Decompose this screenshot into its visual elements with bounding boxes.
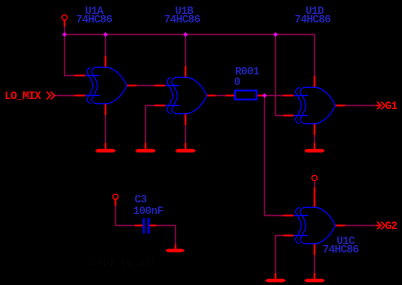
- svg-text:0: 0: [234, 77, 240, 89]
- U1C pin input2: [283, 235, 294, 237]
- junction on bus at U1A top: [103, 32, 107, 36]
- ground bar C3: [165, 249, 185, 253]
- wire U1B bottom to ground: [185, 125, 187, 143]
- ground stem red U1C in2: [275, 273, 277, 279]
- wire U1D bottom to ground: [314, 135, 316, 143]
- xor gate U1C: [294, 207, 336, 243]
- wire node down to U1C in1: [265, 96, 284, 216]
- ground bar under U1D: [304, 149, 325, 153]
- ground stem red under U1B: [185, 143, 187, 149]
- svg-text:C3: C3: [135, 195, 148, 207]
- wire C3 right to ground: [157, 226, 176, 245]
- ground bar under U1A: [95, 149, 116, 153]
- svg-text:74HC86: 74HC86: [164, 15, 200, 27]
- junction on bus at left drop: [62, 32, 66, 36]
- U1A pin input2: [75, 95, 86, 97]
- ground stem red under U1D: [314, 143, 316, 149]
- U1D pin input2: [283, 115, 294, 117]
- wire bus drop to U1D in2: [276, 35, 284, 116]
- wire U1C bottom to ground: [314, 255, 316, 273]
- svg-text:G1: G1: [385, 101, 398, 113]
- capacitor C3 plates: [144, 218, 149, 234]
- U1B pin bottom: [185, 113, 187, 125]
- resistor R001 pin left: [226, 95, 236, 97]
- wire C3 circle to cap: [116, 206, 136, 226]
- wire drop to U1B top pin: [185, 35, 187, 67]
- U1D pin input1: [283, 95, 294, 97]
- xor gate U1A: [85, 67, 127, 103]
- U1B pin top: [185, 66, 187, 78]
- junction at R001 output node: [262, 93, 266, 97]
- wire bus top horizontal with right drop: [65, 35, 315, 77]
- C3 port stem: [115, 200, 117, 206]
- U1A pin bottom: [105, 103, 107, 115]
- junction on bus at U1D drop: [273, 32, 277, 36]
- resistor R001 body: [235, 91, 257, 100]
- wire circle to bus: [64, 27, 66, 35]
- xor gate U1B: [165, 77, 207, 113]
- U1C pin top: [314, 196, 316, 208]
- resistor R001 pin right: [257, 95, 266, 97]
- U1A pin output: [127, 85, 137, 87]
- U1C pin bottom: [314, 244, 316, 255]
- svg-text:LO_MIX: LO_MIX: [5, 91, 42, 103]
- wire drop to U1A top pin: [105, 35, 107, 57]
- port chevron G2: [376, 222, 385, 230]
- U1C pin output: [335, 225, 345, 227]
- wire U1B in2 to ground: [146, 106, 155, 144]
- power port stem above U1C: [314, 188, 316, 197]
- U1B pin output: [207, 95, 216, 97]
- ground stem red under U1C: [314, 273, 316, 279]
- wire U1A out to U1B in1: [137, 85, 155, 87]
- U1A pin input1: [75, 75, 86, 77]
- xor gate U1D: [294, 87, 336, 123]
- power port circle top-left: [62, 15, 67, 20]
- ground bar under U1C: [304, 279, 325, 283]
- C3 top power port circle: [113, 194, 118, 199]
- U1B pin input2: [155, 105, 166, 107]
- power port circle above U1C: [312, 175, 317, 180]
- wire LO_MIX to U1A input2: [55, 95, 75, 97]
- ground stem red U1B in2: [145, 143, 147, 149]
- wire U1D out to port G1: [345, 105, 378, 107]
- wire U1B out to R001: [216, 95, 226, 97]
- wire U1C out to port G2: [345, 225, 378, 227]
- ground stem red under U1A: [105, 143, 107, 149]
- ground bar U1C in2: [265, 279, 286, 283]
- capacitor C3 pin left: [135, 225, 143, 227]
- ground stem red C3: [175, 245, 177, 250]
- power port stem red: [64, 20, 66, 26]
- wire U1A bottom to ground: [105, 115, 107, 143]
- port chevron LO_MIX: [47, 92, 55, 100]
- svg-text:74HC86: 74HC86: [76, 15, 112, 27]
- wire U1C top circle segment: [314, 182, 316, 188]
- U1B pin input1: [155, 85, 166, 87]
- svg-text:74HC86: 74HC86: [322, 245, 358, 257]
- svg-text:100nF: 100nF: [133, 206, 163, 218]
- U1A pin top: [105, 56, 107, 68]
- wire R001 to U1D in1: [265, 95, 284, 97]
- U1D pin output: [335, 105, 345, 107]
- ground bar U1B in2: [135, 149, 156, 153]
- svg-text:4xPD2 LO.Sch: 4xPD2 LO.Sch: [85, 258, 157, 270]
- U1C pin input1: [283, 215, 294, 217]
- capacitor C3 pin right: [150, 225, 157, 227]
- U1D pin bottom: [314, 123, 316, 135]
- svg-text:G2: G2: [385, 221, 397, 233]
- junction on bus at U1B top: [183, 32, 187, 36]
- port chevron G1: [376, 102, 385, 110]
- U1D pin top: [314, 76, 316, 88]
- wire U1C in2 to ground: [276, 236, 284, 274]
- wire left drop to U1A input1: [65, 35, 75, 76]
- svg-text:74HC86: 74HC86: [294, 15, 330, 27]
- ground bar under U1B: [175, 149, 196, 153]
